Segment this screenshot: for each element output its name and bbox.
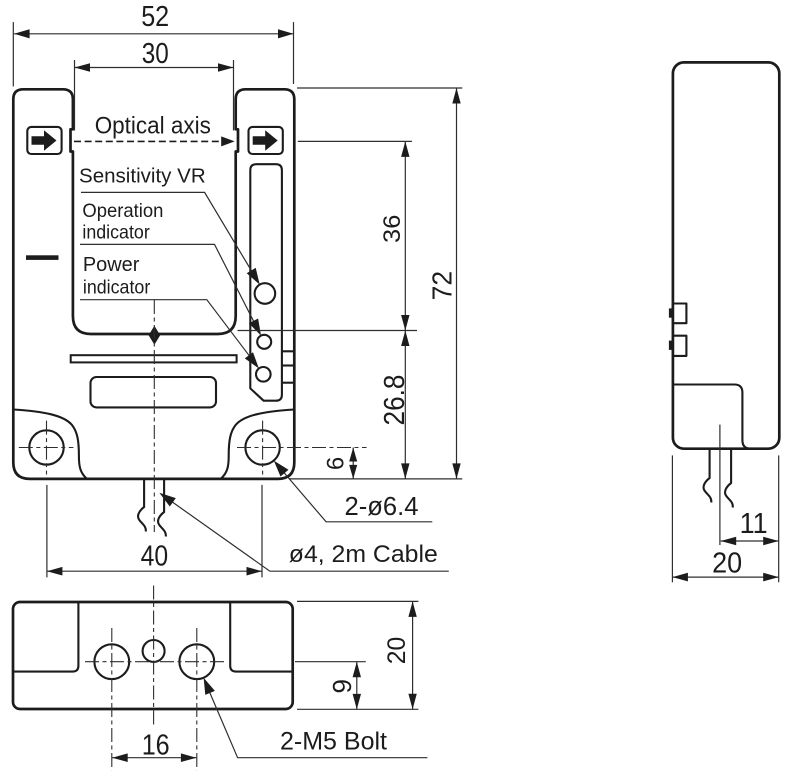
svg-text:6: 6 — [323, 457, 350, 470]
dim 30 — [74, 60, 76, 131]
dim 16 — [112, 757, 196, 759]
svg-text:ø4, 2m Cable: ø4, 2m Cable — [289, 541, 438, 568]
bottom view outline — [13, 602, 293, 709]
emitter arrow glyph (left) — [32, 130, 57, 150]
dim 20 extensions — [671, 455, 673, 582]
side view outline — [673, 62, 779, 448]
bottom-right inner contour — [221, 410, 295, 479]
optical center diamond — [149, 326, 161, 345]
dim 72 — [456, 88, 458, 479]
power indicator leader — [80, 300, 256, 365]
cable outline — [138, 479, 146, 532]
dim 52 — [12, 22, 14, 86]
sensor body outline (U-shape, front view) — [13, 89, 294, 479]
main vertical center line — [153, 586, 155, 729]
bolt hole right — [179, 644, 214, 679]
svg-text:20: 20 — [383, 637, 411, 665]
svg-text:indicator: indicator — [82, 222, 150, 244]
beam slit bar — [71, 355, 237, 362]
clamp ticks right edge — [282, 350, 294, 352]
svg-text:52: 52 — [141, 1, 169, 33]
label plate — [91, 377, 217, 407]
svg-text:40: 40 — [141, 540, 169, 572]
dim 20 — [672, 576, 778, 578]
hole right crosshair — [237, 447, 367, 449]
svg-text:9: 9 — [327, 679, 357, 693]
mounting hole right — [245, 430, 279, 464]
indicator window lower — [673, 336, 687, 356]
dim 6 — [352, 448, 354, 479]
dim 26.8 — [404, 331, 406, 479]
cable center line — [719, 425, 721, 545]
dim 11 — [721, 540, 779, 542]
svg-text:indicator: indicator — [83, 277, 151, 299]
sensitivity VR leader — [81, 192, 257, 279]
2-dia6.4 leader — [278, 466, 432, 522]
optical axis arrowhead — [221, 136, 235, 146]
sensitivity VR circle — [255, 283, 276, 304]
extension line optical axis — [298, 140, 412, 142]
bottom-left inner contour — [13, 410, 87, 479]
svg-text:11: 11 — [740, 508, 768, 540]
operation indicator circle — [257, 335, 271, 349]
2-M5 bolt leader — [207, 685, 428, 757]
dim 20 extensions — [297, 600, 418, 602]
svg-text:20: 20 — [712, 548, 742, 580]
operation indicator leader — [80, 244, 258, 330]
bolt hole left — [94, 644, 129, 679]
dim 36 — [404, 141, 406, 330]
receiver mark box (right lobe) — [249, 127, 283, 154]
dim 9 extension — [295, 661, 366, 663]
extension line bottom — [289, 478, 462, 480]
indicator slot on right lobe — [250, 164, 282, 401]
svg-text:30: 30 — [142, 38, 169, 70]
dim 20 — [412, 601, 414, 709]
power indicator circle — [256, 367, 271, 382]
extension line top — [297, 87, 462, 89]
bump upper — [669, 308, 673, 317]
cable leader — [170, 500, 449, 571]
svg-text:Power: Power — [83, 254, 140, 276]
receiver arrow glyph (right) — [253, 130, 278, 150]
dim 40 — [46, 485, 48, 578]
vertical center line — [153, 300, 155, 532]
mounting hole left — [29, 430, 63, 464]
svg-text:2-M5 Bolt: 2-M5 Bolt — [280, 728, 387, 756]
horizontal center line — [85, 661, 224, 663]
cable hole — [143, 640, 165, 662]
svg-text:36: 36 — [379, 215, 406, 243]
side slit mark on left lobe — [26, 255, 59, 260]
indicator window upper — [673, 304, 687, 324]
dim 9 — [356, 662, 358, 710]
hole left crosshair — [19, 447, 74, 449]
bolt hole left center line — [111, 628, 113, 771]
svg-text:Optical axis: Optical axis — [95, 113, 211, 140]
step contour — [673, 385, 751, 449]
svg-text:26.8: 26.8 — [379, 375, 411, 426]
svg-text:16: 16 — [142, 730, 170, 762]
bump lower — [669, 341, 673, 350]
emitter mark box (left lobe) — [27, 127, 61, 154]
left step — [14, 603, 79, 672]
optical axis dashed line — [74, 140, 224, 142]
svg-text:Operation: Operation — [82, 200, 163, 222]
cable outline — [704, 449, 712, 503]
svg-text:Sensitivity VR: Sensitivity VR — [79, 164, 206, 187]
svg-text:2-ø6.4: 2-ø6.4 — [345, 493, 419, 521]
svg-text:72: 72 — [426, 271, 457, 301]
right step — [230, 603, 292, 672]
bolt hole right center line — [196, 628, 198, 771]
extension line 36-26.8 boundary — [238, 330, 418, 332]
